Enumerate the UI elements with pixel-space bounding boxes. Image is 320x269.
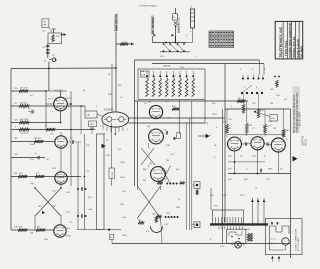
switch S1 wafer contacts upper <box>163 43 165 45</box>
transformer T1 secondary winding <box>219 226 242 229</box>
wire mid horizontal <box>228 161 265 163</box>
svg-text:OSC: OSC <box>89 124 94 126</box>
wire X3 right vertical <box>160 186 162 190</box>
wire label1 horizontal <box>116 43 134 45</box>
wire slant to label <box>255 112 270 117</box>
node heater cross dot <box>115 67 117 69</box>
svg-text:1M: 1M <box>14 138 17 140</box>
wire V9-V10 link <box>60 148 62 172</box>
lamp I1 <box>174 21 178 25</box>
wire grid row 4 <box>11 129 95 131</box>
wire left bus <box>10 69 12 231</box>
component K1 <box>176 133 180 139</box>
resistor R28 <box>282 129 285 137</box>
wire heater horizontal <box>152 42 186 44</box>
wire cluster down <box>48 62 50 92</box>
svg-text:DR JHW: DR JHW <box>299 46 303 58</box>
svg-text:RC: RC <box>106 140 110 142</box>
svg-text:22K: 22K <box>252 103 256 105</box>
wire mid-left vertical a <box>80 106 82 134</box>
wire label1 stem <box>115 32 117 44</box>
tube V7 <box>251 137 264 150</box>
svg-text:6SN7: 6SN7 <box>66 236 72 238</box>
wire sync vertical <box>111 123 113 168</box>
attenuator row 2 <box>156 215 162 217</box>
svg-text:10K: 10K <box>276 95 280 97</box>
wire grid row 8 <box>11 229 54 231</box>
wire atten vertical 2 <box>189 118 191 230</box>
wire V9 top <box>60 132 62 136</box>
tube V11 <box>54 225 66 237</box>
tube V5 <box>151 167 166 182</box>
node signal arrow <box>102 144 106 149</box>
svg-text:1M: 1M <box>166 160 169 162</box>
wire coupling horizontal lower <box>129 122 206 124</box>
svg-text:TYPE 501A: TYPE 501A <box>284 40 288 57</box>
wire C1 link <box>28 111 32 113</box>
node line input <box>61 34 63 36</box>
cross-coupling wires X3 <box>138 186 161 218</box>
resistor R8 <box>18 228 27 231</box>
node slant dot <box>254 111 256 113</box>
wire V2 left pin <box>102 124 104 130</box>
node inset arrows <box>271 222 274 225</box>
capacitor C13 <box>167 131 168 135</box>
resistor R5 <box>34 140 43 143</box>
svg-text:2.2M: 2.2M <box>105 155 110 157</box>
resistor R21 <box>138 222 144 225</box>
label terminal <box>109 234 114 239</box>
wire lower-left verticals <box>77 142 79 230</box>
jack J1 <box>191 9 195 28</box>
svg-text:2M: 2M <box>14 173 17 175</box>
transformer T1 core <box>210 223 268 225</box>
wire plate supply horizontal <box>135 100 249 102</box>
resistor R10 <box>120 43 128 46</box>
wire bank right drop <box>204 100 206 124</box>
tube V9 <box>55 136 67 148</box>
resistor R4b <box>46 128 55 131</box>
node X1 arrowheads <box>42 211 45 214</box>
wire bank mid drop <box>179 100 181 135</box>
wire deck stems <box>243 96 245 104</box>
svg-text:R1 47K: R1 47K <box>20 88 28 90</box>
switch S2 box <box>48 33 62 44</box>
capacitor C16 <box>267 142 268 146</box>
node heater junction 1 <box>165 42 167 44</box>
wire V8 down <box>277 152 279 174</box>
wire bottom long horizontal <box>112 243 291 245</box>
svg-text:100K: 100K <box>30 144 35 146</box>
svg-text:600 Ω: 600 Ω <box>305 139 307 145</box>
capacitor C23 pair <box>77 215 79 217</box>
resistor R32 <box>242 104 245 113</box>
svg-text:180K: 180K <box>120 162 125 164</box>
label notes (rotated) <box>293 86 300 133</box>
wire V1 plate <box>60 91 62 97</box>
svg-text:SYNC: SYNC <box>112 171 114 177</box>
svg-text:NOTE: ALL VOLTAGES READ WITH: NOTE: ALL VOLTAGES READ WITH <box>293 95 296 133</box>
table title block <box>275 21 303 59</box>
svg-text:117V: 117V <box>240 195 245 197</box>
capacitor C15 <box>246 142 247 146</box>
capacitor C21 <box>46 53 50 54</box>
wire bottom start tick <box>111 240 113 244</box>
resistor R31 <box>276 80 279 87</box>
svg-text:PLATE TR: PLATE TR <box>178 22 181 33</box>
wire right bus vertical <box>290 109 292 258</box>
svg-text:2W: 2W <box>143 180 146 182</box>
svg-text:PWR OFF-ON: PWR OFF-ON <box>114 14 118 31</box>
capacitor C20 stack <box>46 46 50 47</box>
svg-text:SW: SW <box>56 36 59 38</box>
wire middle box top edge <box>135 59 260 61</box>
svg-text:33K: 33K <box>86 145 90 147</box>
capacitor C2 <box>90 128 94 129</box>
svg-text:SIS. B+ 285V: SIS. B+ 285V <box>300 112 302 126</box>
svg-text:S1B: S1B <box>141 74 146 76</box>
wire B+ bus vertical <box>224 64 226 223</box>
resistor R16 <box>172 108 179 111</box>
label callout note <box>42 19 49 28</box>
svg-text:S1A: S1A <box>140 70 145 73</box>
svg-text:OFF: OFF <box>43 25 48 27</box>
resistor R33 <box>257 109 260 118</box>
wire R28 stem <box>283 109 285 129</box>
coupling box <box>97 134 105 230</box>
wire atten vertical 1 <box>185 123 187 230</box>
wire V7-V8 coupling <box>264 143 271 146</box>
wire V4 V5 stems <box>148 143 150 148</box>
cross-coupling wires X2b <box>161 166 171 184</box>
wire center vertical <box>137 101 139 186</box>
jack J2 <box>52 58 56 62</box>
svg-text:V1 6SJ7: V1 6SJ7 <box>54 90 63 92</box>
tube V3 <box>149 105 162 118</box>
switch S1D deck lower <box>241 64 264 95</box>
capacitor C1 <box>32 110 33 114</box>
resistor R26 <box>245 123 248 133</box>
resistor R7 <box>35 175 44 178</box>
capacitor bank C5-C12 with range switch <box>138 67 205 99</box>
resistor R30 inside S2 <box>52 35 55 42</box>
svg-text:.5M: .5M <box>52 206 56 208</box>
wire V2 pins <box>106 127 108 131</box>
wire output stage lower horizontal <box>228 173 291 175</box>
jack J4 <box>194 222 200 228</box>
wire V6-V7 coupling <box>241 143 251 145</box>
switch S1 wiper arms <box>164 44 171 51</box>
component bits below TB1 <box>89 121 97 127</box>
resistor R27 <box>264 124 267 133</box>
wire grid row 6 <box>11 157 45 159</box>
wire V1 right <box>67 103 71 105</box>
svg-text:W: W <box>206 123 208 125</box>
wire plate top feeds <box>228 134 285 136</box>
wire X1 to V11 <box>60 216 62 225</box>
node heater arrows <box>251 199 254 202</box>
node V4 plate junction <box>173 137 175 139</box>
node V1 junctions <box>45 90 47 92</box>
svg-text:250V: 250V <box>66 98 71 100</box>
node frame junction <box>48 67 50 69</box>
capacitor C17 <box>261 169 262 173</box>
tube V6 <box>228 137 242 151</box>
svg-text:R4 220K: R4 220K <box>20 132 29 134</box>
node fuse bottom <box>175 25 177 27</box>
svg-text:FIL. TRANSF: FIL. TRANSF <box>151 17 155 34</box>
svg-text:6SJ7: 6SJ7 <box>48 99 54 101</box>
svg-text:10K: 10K <box>14 120 18 122</box>
svg-text:1W: 1W <box>30 233 33 235</box>
resistor R6 <box>18 175 27 178</box>
wire coupling horizontal upper <box>129 117 226 119</box>
wire V6 down <box>234 151 236 174</box>
fuse F1 <box>173 14 178 20</box>
terminal box TB1 <box>85 111 97 118</box>
resistor R35 <box>250 233 252 241</box>
wire atten vertical 3 <box>191 101 193 230</box>
svg-text:1M: 1M <box>270 103 273 105</box>
wire middle box left edge <box>134 60 136 186</box>
node row junctions <box>80 105 82 107</box>
wire right box top <box>225 108 291 110</box>
svg-text:47K: 47K <box>14 154 18 156</box>
table tube voltage chart <box>209 31 234 47</box>
wire R27 stem <box>264 109 266 124</box>
node V2 bottom junction <box>115 133 117 135</box>
svg-text:ON: ON <box>43 21 47 23</box>
tube V8 <box>271 138 285 152</box>
wire S1 bus <box>160 51 190 53</box>
wire grid row 5 <box>11 141 55 143</box>
node aux contacts <box>274 76 276 78</box>
capacitor C3 <box>73 140 74 144</box>
switch S1 wafer contacts lower <box>163 50 165 52</box>
wire screen vertical <box>45 91 47 130</box>
resistor R9 <box>36 228 45 231</box>
wire jack links <box>192 184 194 186</box>
svg-text:R5 1M: R5 1M <box>34 138 41 140</box>
wire cluster vertical <box>47 44 49 59</box>
wire secondary box <box>227 229 246 243</box>
transformer T1 primary box <box>213 210 244 224</box>
wire plate stem <box>174 36 176 43</box>
wire grid row 3 <box>11 122 61 124</box>
label OUT (rotated boxed) <box>109 168 114 178</box>
wire V10 bottom <box>60 184 62 188</box>
wire leader line <box>49 28 52 33</box>
capacitor C22 pair <box>77 188 79 190</box>
wire switch stem <box>53 29 55 33</box>
node arrow plate <box>172 34 174 37</box>
wire transformer feed <box>210 188 212 210</box>
wire R26 stem <box>246 101 248 123</box>
wire V7 down <box>257 150 259 174</box>
node heater junction 2 <box>174 42 176 44</box>
jack J3 <box>194 182 200 189</box>
tube V4 <box>149 129 164 144</box>
wire grid row 7 <box>11 176 81 178</box>
resistor R3 <box>19 121 29 124</box>
wire TB1 to V2 oval <box>97 115 102 117</box>
wire X3 left side <box>137 186 139 190</box>
wire J1 down <box>192 28 194 43</box>
resistor R25 <box>226 124 229 133</box>
tube V2 dual envelope <box>102 112 129 127</box>
label boxed 500 <box>270 115 278 122</box>
svg-text:V2 6SN7: V2 6SN7 <box>104 109 114 111</box>
wire fuse stem <box>175 8 177 14</box>
svg-text:R2 1M: R2 1M <box>20 103 27 105</box>
pilot lamp I2 <box>235 242 242 249</box>
transformer T1 primary winding <box>216 217 242 224</box>
wire R25 stem <box>226 109 228 124</box>
svg-text:BOTTOM VIEW: BOTTOM VIEW <box>298 237 300 251</box>
wire box bottom link <box>77 229 121 231</box>
tube V10 <box>55 172 67 184</box>
label PLATE TRANS (rotated) <box>177 17 180 33</box>
wire arc tail <box>161 238 163 244</box>
wire V1 grid left <box>46 103 54 105</box>
node V6 junction <box>234 161 236 163</box>
label FIL TRANS (rotated) <box>151 16 154 35</box>
svg-text:10W: 10W <box>222 195 226 197</box>
node output arrow <box>293 156 298 162</box>
svg-text:15K: 15K <box>120 204 124 206</box>
wire fil stem <box>151 36 153 43</box>
wire V1 feed vertical <box>115 44 117 112</box>
resistor R1 <box>19 89 28 92</box>
node input arrow right box <box>198 135 205 137</box>
svg-text:( POWER TRANS ): ( POWER TRANS ) <box>139 5 158 8</box>
svg-text:22K: 22K <box>14 88 18 90</box>
wire S2 to node <box>62 34 64 36</box>
svg-text:POS: POS <box>160 56 165 58</box>
svg-text:PRI: PRI <box>214 206 218 208</box>
wire grid row 2 <box>11 105 85 107</box>
heater loop arc <box>151 227 163 233</box>
wire middle box top edge lower <box>152 63 264 65</box>
svg-text:VTVM FROM SOCKET PIN AND CHAS: VTVM FROM SOCKET PIN AND CHAS <box>296 92 299 133</box>
resistor R4 <box>19 128 29 131</box>
svg-text:68K: 68K <box>143 169 147 171</box>
switch S1C deck upper <box>242 60 264 80</box>
node arrow fil <box>154 34 156 37</box>
svg-text:OUTPUT: OUTPUT <box>302 135 305 146</box>
wire top-left horizontal <box>11 67 116 70</box>
inset socket detail box <box>265 219 302 255</box>
resistor R24 <box>196 190 198 195</box>
svg-text:TELETRONICS, INC.: TELETRONICS, INC. <box>279 26 283 58</box>
wire heater pair vertical <box>111 64 113 113</box>
wire V1 cathode <box>60 111 62 123</box>
svg-text:50K: 50K <box>14 227 18 229</box>
node bottom junction <box>108 229 110 231</box>
node arrow to switch <box>131 43 134 46</box>
cross-coupling wires X1 <box>35 188 61 216</box>
attenuator row 1 <box>157 182 163 184</box>
resistor R34 <box>247 233 249 241</box>
resistor R20 <box>155 216 158 222</box>
label PWR OFF-ON (rotated) <box>114 15 117 32</box>
svg-text:R3 470K: R3 470K <box>20 119 29 121</box>
resistor R2 <box>19 104 29 107</box>
svg-text:GND: GND <box>122 235 127 237</box>
wire heater taps <box>252 198 254 224</box>
svg-text:RANGE: RANGE <box>163 65 171 68</box>
svg-text:6.3 V: 6.3 V <box>249 236 251 241</box>
wire grid row 1 <box>11 90 46 92</box>
svg-text:185V: 185V <box>212 114 217 116</box>
tube V1 <box>54 97 68 111</box>
resistor R29 <box>237 100 245 103</box>
wire left mid vertical <box>84 106 86 111</box>
capacitor C4 <box>38 156 39 160</box>
node below-inset arrows <box>271 256 274 259</box>
cross-coupling wires X2 <box>141 148 155 165</box>
wire right box left edge <box>222 109 224 244</box>
